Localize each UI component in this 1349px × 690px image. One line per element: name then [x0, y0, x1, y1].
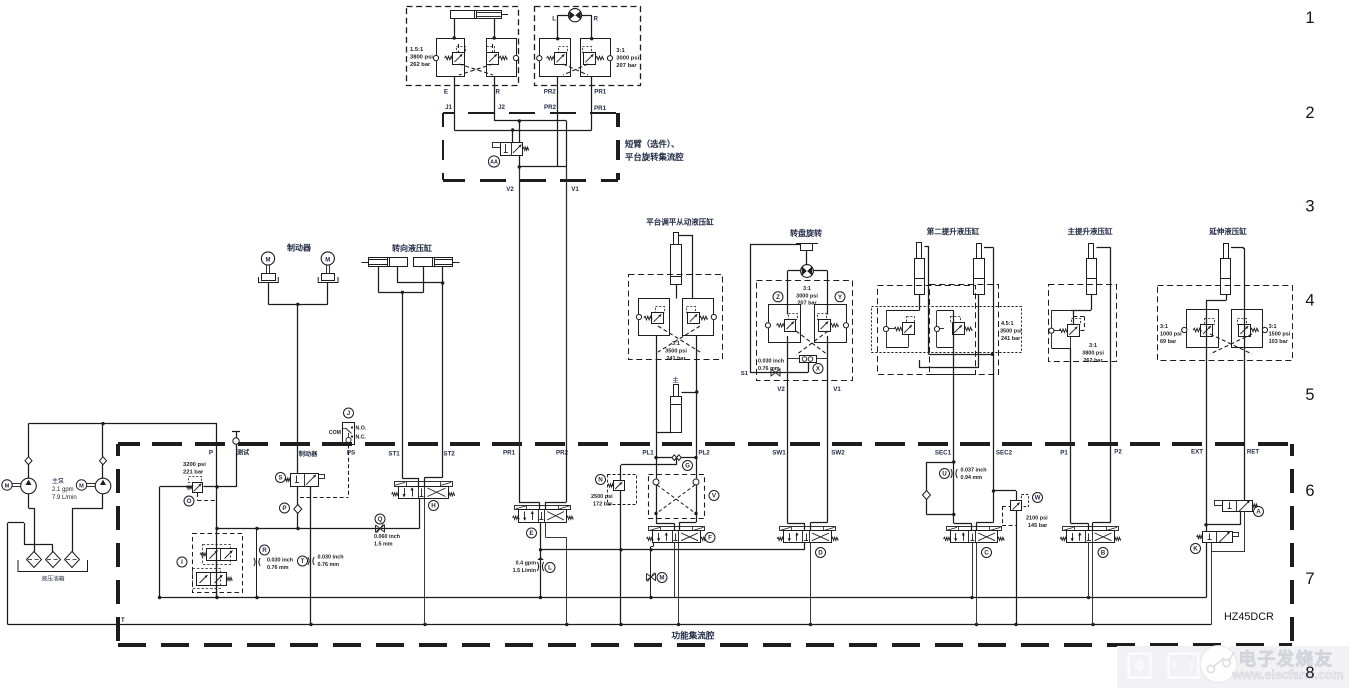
- wire steering ports: [378, 266, 380, 292]
- swing motor: [801, 265, 814, 278]
- svg-text:103 bar: 103 bar: [1269, 339, 1289, 345]
- svg-text:液压油箱: 液压油箱: [41, 575, 64, 583]
- counterbalance valve jib-left: [453, 53, 465, 65]
- counterbalance valve SW-right: [819, 320, 831, 332]
- wire steering cross a: [397, 282, 442, 284]
- svg-text:B: B: [1101, 550, 1106, 557]
- svg-text:平台旋转集流腔: 平台旋转集流腔: [625, 152, 684, 162]
- svg-text:制动器: 制动器: [299, 450, 318, 458]
- wire F drain a: [674, 543, 676, 598]
- port circle jib-right: [513, 55, 518, 60]
- svg-text:HZ45DCR: HZ45DCR: [1224, 611, 1274, 623]
- pump P2 motor M: [76, 480, 86, 490]
- svg-text:0.060 inch: 0.060 inch: [374, 534, 400, 540]
- main pump 1: [21, 478, 37, 494]
- swing CB loop left: [769, 305, 801, 343]
- wire PR2 into E: [566, 452, 568, 502]
- wire ST2 line: [442, 283, 444, 478]
- wire H drain: [424, 499, 426, 625]
- svg-text:7: 7: [1305, 570, 1314, 588]
- valve label W: [1033, 493, 1043, 503]
- svg-text:Z: Z: [776, 294, 780, 301]
- EXT CB loop left: [1187, 310, 1219, 348]
- rotate CB loop right: [581, 39, 611, 77]
- svg-text:PR1: PR1: [594, 105, 607, 112]
- wire tank bus T: [8, 624, 1212, 626]
- swing valve D: [784, 531, 832, 543]
- filter block I dashed box: [193, 534, 243, 593]
- svg-text:172 bar: 172 bar: [593, 502, 613, 508]
- valve label AA: [488, 156, 499, 167]
- svg-text:转盘旋转: 转盘旋转: [790, 228, 822, 238]
- wire motor to CB left: [788, 270, 801, 272]
- EXT CB loop right: [1232, 310, 1263, 348]
- PL lower cylinder: [671, 397, 682, 433]
- swing pilot cross: [796, 331, 828, 355]
- svg-text:延伸液压缸: 延伸液压缸: [1208, 226, 1247, 236]
- counterbalance valve SW-left: [785, 320, 796, 332]
- svg-text:H: H: [431, 503, 436, 510]
- orifice R: [254, 558, 255, 566]
- svg-text:3:1: 3:1: [1089, 343, 1097, 349]
- svg-text:PR1: PR1: [594, 89, 607, 96]
- svg-text:6: 6: [1305, 482, 1314, 500]
- port circle SW-right: [843, 323, 848, 328]
- node bus528 junctions: [255, 527, 258, 530]
- svg-text:0.030 inch: 0.030 inch: [318, 555, 344, 561]
- wire R down: [494, 77, 496, 112]
- node E out junction: [539, 548, 542, 551]
- svg-text:2500 psi: 2500 psi: [591, 494, 613, 500]
- valve label E: [527, 528, 537, 538]
- svg-text:J: J: [347, 410, 351, 417]
- svg-text:M: M: [266, 257, 271, 263]
- N dashed box: [608, 475, 637, 505]
- wire PR2 down: [557, 77, 559, 112]
- wire E down: [454, 77, 456, 112]
- port circle PL-left: [636, 314, 641, 319]
- wire brake line: [297, 304, 299, 473]
- main lift valve B: [1067, 531, 1115, 543]
- svg-text:3500 psi: 3500 psi: [665, 349, 687, 355]
- shuttle valve swing: [800, 356, 817, 363]
- check valve U loop: [923, 491, 931, 500]
- svg-text:E: E: [444, 89, 448, 96]
- jib circuit dashed box: [407, 7, 519, 86]
- svg-text:平台调平从动液压缸: 平台调平从动液压缸: [646, 217, 714, 227]
- valve label M: [657, 573, 667, 583]
- svg-text:0.4 gpm: 0.4 gpm: [516, 561, 537, 567]
- svg-text:P1: P1: [1060, 450, 1068, 457]
- V box nodes: [654, 512, 657, 515]
- svg-text:R: R: [496, 89, 501, 96]
- platform level valve F: [653, 531, 701, 543]
- node bus550 junctions: [619, 548, 622, 551]
- port circle jib-left: [433, 55, 438, 60]
- port circle rot-right: [607, 56, 612, 61]
- svg-text:145 bar: 145 bar: [1028, 523, 1048, 529]
- wire bracket stem: [806, 251, 808, 265]
- orifice X needle: [771, 369, 780, 376]
- valve label D: [816, 548, 826, 558]
- function manifold dashed border bottom: [118, 643, 146, 647]
- wire SEC2 into manifold: [993, 452, 995, 522]
- svg-text:PL2: PL2: [698, 450, 710, 457]
- svg-text:241 bar: 241 bar: [1001, 336, 1021, 342]
- wire V to F left: [656, 485, 658, 513]
- rotate select valve E: [519, 510, 567, 523]
- SEC cylinder 1: [915, 259, 925, 295]
- wire J2 to junction: [494, 112, 496, 121]
- port circle SEC-right: [934, 326, 939, 331]
- svg-text:3:1: 3:1: [616, 48, 625, 54]
- wire shuttle out: [808, 362, 810, 372]
- svg-text:PR2: PR2: [544, 104, 557, 111]
- valve label J: [344, 408, 354, 418]
- wire E drain: [545, 522, 547, 538]
- valve label U: [940, 469, 950, 479]
- svg-text:A: A: [1256, 509, 1261, 516]
- svg-text:Q: Q: [378, 516, 383, 523]
- svg-text:3500 psi: 3500 psi: [1000, 329, 1022, 335]
- extend valve K: [1203, 532, 1233, 543]
- svg-text:L: L: [548, 565, 552, 572]
- svg-text:S1: S1: [741, 371, 749, 377]
- svg-text:电子发烧友: 电子发烧友: [1239, 649, 1334, 669]
- svg-text:PL1: PL1: [642, 450, 654, 457]
- check valve pump1: [25, 457, 32, 465]
- V box cross: [657, 485, 695, 513]
- svg-text:262 bar: 262 bar: [410, 62, 431, 68]
- wire W down: [1016, 511, 1018, 625]
- relief valve W: [1011, 501, 1022, 511]
- valve AA: [501, 143, 523, 156]
- jib CB loop left: [437, 39, 465, 77]
- valve label Z: [773, 292, 783, 302]
- svg-text:主泵: 主泵: [52, 477, 64, 485]
- tank bracket: [18, 560, 88, 572]
- swing CB loop right: [815, 305, 847, 343]
- counterbalance valve EXT-left: [1201, 325, 1213, 337]
- svg-text:O: O: [187, 498, 192, 505]
- valve label V: [709, 491, 719, 501]
- SEC dotted wide box: [872, 307, 1022, 353]
- wire PL2 into manifold: [696, 452, 698, 479]
- wire A out: [1240, 512, 1242, 525]
- svg-text:69 bar: 69 bar: [1160, 339, 1177, 345]
- svg-text:N.C.: N.C.: [356, 435, 367, 441]
- wire I internal: [216, 561, 218, 573]
- svg-text:R: R: [262, 547, 267, 554]
- wire pressure bus y528: [217, 528, 420, 530]
- valve label T orifice: [298, 556, 308, 566]
- pump P1 shaft: [12, 483, 21, 485]
- wire D drain: [810, 543, 812, 625]
- relief valve O: [193, 483, 203, 493]
- main lift cylinder: [1087, 259, 1097, 295]
- wire ST1 line: [402, 292, 404, 478]
- svg-text:V1: V1: [833, 386, 841, 393]
- svg-text:G: G: [685, 463, 690, 470]
- rotate motor dashed box: [535, 7, 641, 86]
- wire motor left: [558, 15, 569, 17]
- svg-text:0.94 mm: 0.94 mm: [961, 475, 983, 481]
- watermark toolbar icon 2: [1169, 654, 1199, 678]
- svg-text:J2: J2: [498, 104, 505, 111]
- suction filter 1: [27, 552, 42, 568]
- svg-text:0.037 inch: 0.037 inch: [961, 468, 987, 474]
- svg-text:ST2: ST2: [443, 451, 455, 458]
- wire pump2 suction: [102, 494, 104, 508]
- wire motor right: [582, 15, 592, 17]
- valve label O: [184, 496, 194, 506]
- wire V to F right: [696, 485, 698, 513]
- orifice M needle: [647, 574, 656, 581]
- svg-text:N: N: [598, 477, 603, 484]
- short-arm rotate manifold dashed border bottom: [443, 179, 465, 182]
- wire tank return left: [7, 523, 9, 625]
- wire S drain: [310, 486, 312, 625]
- short-arm rotate manifold dashed border right: [616, 113, 620, 127]
- short-arm rotate manifold dashed border left: [442, 113, 444, 127]
- wire Q to valve H: [419, 499, 421, 529]
- valve label B: [1098, 548, 1108, 558]
- valve label K: [1191, 544, 1201, 554]
- steering cylinder 2: [414, 258, 453, 267]
- counterbalance valve rot-right: [584, 53, 596, 65]
- valve label F: [705, 533, 715, 543]
- wire PL1 line: [656, 336, 658, 452]
- svg-text:ST1: ST1: [388, 451, 400, 458]
- svg-text:221 bar: 221 bar: [183, 470, 204, 476]
- svg-text:M: M: [79, 484, 84, 490]
- brake motor M2: [321, 252, 334, 265]
- svg-text:AA: AA: [490, 160, 498, 166]
- valve label G: [683, 461, 693, 471]
- swing CB dashed box: [757, 281, 853, 381]
- master cylinder bypass box V: [649, 475, 705, 519]
- relief O pilot dashed: [197, 493, 199, 501]
- svg-text:3000 psi: 3000 psi: [616, 56, 639, 62]
- wire work bus y550: [541, 549, 805, 551]
- brake valve S: [291, 474, 319, 487]
- wire SEC1 line: [953, 311, 955, 524]
- svg-text:5: 5: [1305, 386, 1314, 404]
- node junction c: [518, 165, 521, 168]
- svg-text:P: P: [209, 450, 213, 457]
- svg-text:F: F: [708, 535, 712, 542]
- brake actuator 2: [322, 274, 335, 281]
- svg-text:制动器: 制动器: [287, 243, 312, 253]
- MAIN pilot dashed: [1073, 316, 1084, 318]
- wire PR1 drop: [591, 112, 593, 130]
- MAIN loop: [1051, 310, 1053, 328]
- wire E out: [540, 522, 542, 598]
- svg-text:241 bar: 241 bar: [666, 356, 686, 362]
- node bus597 junctions: [539, 596, 542, 599]
- wire S1 release line: [750, 244, 801, 246]
- wire C drain a: [972, 543, 974, 598]
- wire relief link: [160, 486, 193, 488]
- valve label Q: [375, 514, 385, 524]
- valve label H: [429, 501, 439, 511]
- counterbalance valve PL-right: [688, 313, 700, 324]
- function manifold dashed border right: [1290, 444, 1294, 456]
- port circle PL-right: [711, 314, 716, 319]
- wire main lift side: [1096, 247, 1110, 249]
- wire EXT line: [1226, 295, 1228, 301]
- wire F drain b: [678, 543, 680, 625]
- orifice G: [656, 457, 696, 459]
- valve label C: [982, 548, 992, 558]
- second lift valve C: [951, 531, 998, 543]
- suction filter 2: [46, 552, 61, 568]
- check valve pump2: [100, 457, 107, 465]
- watermark band: [1117, 646, 1349, 688]
- SEC dashed box right: [930, 285, 999, 375]
- main pump 2: [95, 478, 111, 494]
- SEC-left loop: [886, 311, 888, 327]
- svg-text:第二提升液压缸: 第二提升液压缸: [927, 226, 980, 236]
- brake M2 stem: [326, 265, 328, 273]
- wire N branch: [676, 458, 678, 465]
- wire PL1 into manifold: [656, 452, 658, 479]
- svg-text:3:1: 3:1: [803, 286, 811, 292]
- wire C drain b: [976, 543, 978, 625]
- filter block I lower valve: [197, 573, 227, 586]
- valve label P: [280, 503, 290, 513]
- jib pilot cross: [459, 64, 493, 75]
- svg-text:J1: J1: [445, 104, 452, 111]
- wire K drain: [1211, 543, 1213, 625]
- svg-text:0.030 inch: 0.030 inch: [267, 558, 293, 564]
- svg-text:COM: COM: [329, 430, 341, 436]
- valve label L: [545, 563, 555, 573]
- svg-text:8: 8: [1305, 664, 1314, 682]
- svg-text:L: L: [552, 16, 556, 23]
- counterbalance valve EXT-right: [1239, 325, 1251, 337]
- svg-text:T: T: [121, 618, 125, 624]
- svg-text:E: E: [529, 530, 533, 537]
- wire B drain b: [1092, 543, 1094, 625]
- svg-text:U: U: [942, 471, 947, 478]
- svg-text:1500 psi: 1500 psi: [1269, 332, 1291, 338]
- svg-text:W: W: [1035, 495, 1041, 502]
- valve label X: [813, 364, 823, 374]
- svg-text:SW1: SW1: [772, 450, 786, 457]
- PL CB dashed box: [629, 275, 723, 360]
- wire PL2 line: [696, 336, 698, 452]
- svg-text:P2: P2: [1114, 449, 1122, 456]
- steering cylinder 1: [369, 258, 408, 267]
- wire RET line: [1231, 247, 1244, 249]
- svg-text:SEC2: SEC2: [996, 450, 1013, 457]
- svg-text:R: R: [594, 16, 599, 23]
- U bypass loop: [927, 462, 954, 464]
- svg-text:EXT: EXT: [1191, 449, 1203, 456]
- SEC cylinder 2: [974, 259, 985, 295]
- svg-text:主: 主: [672, 375, 679, 384]
- PL CB loop left: [639, 299, 670, 336]
- extension cylinder: [1221, 259, 1231, 295]
- wire SEC cyl1 bottom: [919, 295, 921, 311]
- wire P-T bus y597: [160, 597, 1207, 599]
- svg-text:短臂（选件）、: 短臂（选件）、: [625, 139, 679, 149]
- wire V2 line to PR1 port: [519, 167, 521, 452]
- svg-text:S: S: [278, 475, 282, 482]
- port circle rot-left: [537, 56, 542, 61]
- port circle MAIN: [1049, 328, 1054, 333]
- jib CB loop right: [487, 39, 517, 77]
- valve label N: [596, 475, 606, 485]
- wire A drain: [1244, 512, 1246, 552]
- EXT pilot cross: [1210, 334, 1252, 354]
- wire through valve AA: [519, 121, 521, 142]
- brake M1 stem: [266, 265, 268, 273]
- port circle EXT-right: [1262, 327, 1267, 332]
- svg-text:主提升液压缸: 主提升液压缸: [1068, 226, 1113, 236]
- wire SEC cyl2 bottom: [978, 295, 980, 368]
- short-arm rotate manifold dashed border top: [443, 112, 454, 114]
- svg-text:K: K: [1193, 546, 1198, 553]
- rotate pilot cross: [563, 64, 588, 75]
- counterbalance valve jib-right: [487, 53, 499, 65]
- V box port circles: [653, 479, 659, 485]
- wire tank link: [8, 522, 24, 524]
- counterbalance valve rot-left: [555, 53, 567, 65]
- svg-text:M: M: [5, 484, 10, 490]
- suction filter 3: [65, 552, 80, 568]
- svg-text:0.76 mm: 0.76 mm: [267, 565, 289, 571]
- wire cyl to CB: [1091, 295, 1093, 310]
- retract valve A: [1223, 501, 1253, 512]
- pressure switch J: [343, 423, 355, 445]
- pump P1 motor M: [2, 480, 12, 490]
- wire bus550 into D: [804, 543, 806, 550]
- wire PR1 into E: [519, 452, 521, 503]
- svg-text:1.5 mm: 1.5 mm: [374, 542, 393, 548]
- node junction b: [511, 128, 514, 131]
- filter block I upper valve: [207, 549, 237, 561]
- svg-text:功能集流腔: 功能集流腔: [672, 630, 715, 641]
- wire PL upper ports: [676, 285, 678, 299]
- rotate motor: [568, 9, 581, 22]
- svg-text:T: T: [301, 558, 305, 565]
- port circle EXT-left: [1182, 327, 1187, 332]
- steering valve H: [399, 487, 449, 499]
- svg-text:1.5:1: 1.5:1: [410, 47, 424, 53]
- node junction a: [518, 119, 521, 122]
- svg-text:PR2: PR2: [544, 89, 557, 96]
- svg-text:3800 psi: 3800 psi: [1082, 351, 1104, 357]
- watermark logo: [1200, 646, 1237, 683]
- counterbalance valve PL-left: [652, 313, 664, 324]
- watermark toolbar icon 1: [1129, 654, 1151, 678]
- port circle SW-left: [765, 323, 770, 328]
- wire PR2 drop: [557, 112, 559, 167]
- svg-text:4.5:1: 4.5:1: [1001, 321, 1014, 327]
- PL pilot cross: [658, 326, 700, 352]
- brake actuator 1: [262, 274, 276, 281]
- main lift dashed box: [1049, 285, 1117, 362]
- node pump bus junction: [101, 422, 104, 425]
- orifice T: [308, 557, 309, 565]
- svg-text:www.elecfans.com: www.elecfans.com: [1231, 668, 1343, 682]
- function manifold dashed border left: [116, 444, 120, 456]
- wire cylinder port R: [494, 19, 496, 39]
- wire SW1 line: [787, 336, 789, 523]
- svg-text:1000 psi: 1000 psi: [1160, 332, 1182, 338]
